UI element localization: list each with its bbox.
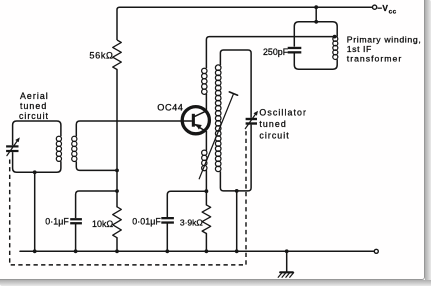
svg-text:10kΩ: 10kΩ <box>92 219 113 229</box>
svg-text:transformer: transformer <box>347 54 402 64</box>
svg-text:circuit: circuit <box>259 131 289 141</box>
svg-text:56kΩ: 56kΩ <box>89 50 113 60</box>
svg-text:3·9kΩ: 3·9kΩ <box>180 217 204 227</box>
svg-text:Oscillator: Oscillator <box>259 107 307 117</box>
svg-text:OC44: OC44 <box>157 103 183 113</box>
svg-text:250pF: 250pF <box>263 47 289 57</box>
svg-text:−V: −V <box>377 3 388 13</box>
svg-text:cc: cc <box>389 8 397 15</box>
svg-text:0·1μF: 0·1μF <box>45 217 69 227</box>
svg-text:1st IF: 1st IF <box>347 44 372 54</box>
svg-text:tuned: tuned <box>20 101 47 111</box>
svg-text:circuit: circuit <box>19 111 49 121</box>
svg-text:Aerial: Aerial <box>20 91 49 101</box>
svg-text:Primary winding,: Primary winding, <box>347 35 422 45</box>
svg-text:0·01μF: 0·01μF <box>132 216 161 226</box>
svg-text:tuned: tuned <box>259 119 287 129</box>
